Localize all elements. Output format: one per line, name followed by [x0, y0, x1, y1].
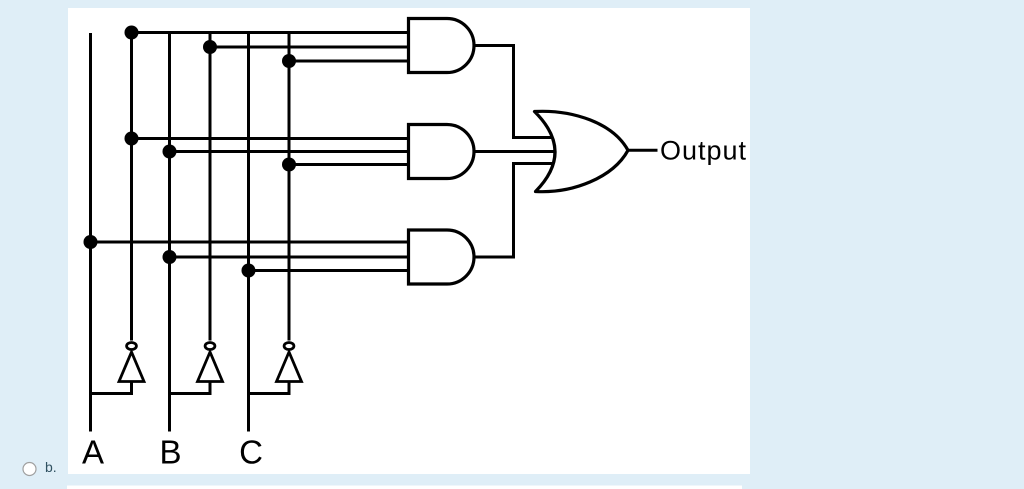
wire B to G3 input 2 [170, 256, 410, 259]
and-gate G3 [409, 230, 475, 284]
wire C to G3 input 3 [249, 269, 410, 272]
node dot A-not/G2 [125, 132, 139, 146]
wire B-not to G1 input 2 [210, 46, 409, 49]
wire A vertical [89, 33, 92, 432]
node dot C-not/G2 [282, 158, 296, 172]
node dot B/G3 [163, 250, 177, 264]
wire C-not to G2 input 3 [289, 163, 409, 166]
node dot C/G3 [242, 264, 256, 278]
node dot B/G2 [163, 145, 177, 159]
svg-text:Output: Output [660, 136, 747, 166]
node dot A/G3 [84, 235, 98, 249]
wire B-not vertical [209, 31, 212, 341]
wire G1 output to G4 top input [474, 46, 556, 138]
wire G2 output to G4 middle input [474, 150, 560, 153]
wire B vertical [168, 31, 171, 432]
wire C vertical [247, 31, 250, 432]
svg-text:A: A [82, 434, 104, 471]
node dot A-not/G1 [125, 26, 139, 40]
next answer panel sliver [67, 486, 742, 489]
wire G3 output to G4 bottom input [474, 164, 556, 258]
radio option b [23, 463, 36, 476]
svg-text:B: B [159, 434, 181, 471]
wire A to G3 input 1 [91, 241, 410, 244]
node dot C-not/G1 [282, 54, 296, 68]
wire C-not to G1 input 3 [289, 60, 409, 63]
wire A branch to inverter U1 input [91, 382, 132, 394]
wire C branch to inverter U3 input [249, 382, 290, 394]
svg-text:b.: b. [45, 459, 57, 475]
wire G4 output [628, 149, 658, 152]
inverter U1 (A) [119, 343, 144, 382]
node dot B-not/G1 [203, 40, 217, 54]
inverter U2 (B) [198, 343, 223, 382]
or-gate G4 [535, 111, 629, 191]
wire A-not to G2 input 1 [132, 137, 410, 140]
svg-text:C: C [239, 434, 263, 471]
wire A-not to G1 input 1 [132, 31, 410, 34]
inverter U3 (C) [277, 343, 302, 382]
wire A-not vertical [130, 31, 133, 341]
wire B branch to inverter U2 input [170, 382, 211, 394]
wire B to G2 input 2 [170, 150, 410, 153]
and-gate G2 [409, 125, 475, 179]
wire C-not vertical [288, 31, 291, 341]
white answer panel [68, 8, 750, 474]
and-gate G1 [409, 19, 475, 73]
